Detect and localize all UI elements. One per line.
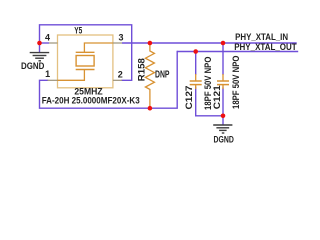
capacitor C121 symbol (217, 74, 229, 89)
junction dot cap ground node (221, 114, 226, 119)
svg-text:DNP: DNP (155, 70, 170, 81)
svg-text:PHY_XTAL_IN: PHY_XTAL_IN (235, 32, 288, 42)
svg-text:DGND: DGND (214, 134, 235, 144)
junction dot R158 top on XTAL_IN rail (148, 41, 153, 46)
svg-text:18PF 50V NPO: 18PF 50V NPO (231, 56, 241, 109)
capacitor C127 symbol (190, 74, 202, 89)
svg-text:PHY_XTAL_OUT: PHY_XTAL_OUT (234, 42, 297, 52)
crystal Y5 symbol: top elbow to pin3 (84, 43, 113, 52)
wire: C127 bottom lead to ground node (196, 88, 223, 116)
wire: DGND stem + top loop + drop to pin2 (40, 25, 132, 81)
svg-text:DGND: DGND (21, 61, 45, 71)
crystal Y5 outline box (58, 35, 113, 88)
wire: C121 bottom lead and ground stem (222, 88, 224, 125)
junction dot C121 top on XTAL_IN rail (221, 41, 226, 46)
resistor R1 (R158) zigzag (145, 43, 154, 108)
junction dot R158 bottom on bottom rail (148, 106, 153, 111)
svg-text:C121: C121 (212, 85, 222, 109)
crystal Y5 symbol: top plate (76, 51, 95, 53)
wire: C121 top lead crossing rail2 (222, 43, 224, 75)
crystal Y5 symbol: bottom elbow to pin1 (58, 70, 85, 81)
pin 1 stub (48, 79, 58, 81)
ground symbol DGND (left) (30, 53, 50, 61)
svg-text:1: 1 (45, 69, 50, 79)
pin 2 stub (113, 79, 122, 81)
svg-text:R158: R158 (137, 58, 147, 81)
wire: pin4 to DGND junction (40, 42, 50, 44)
crystal Y5 symbol: bottom plate (76, 69, 95, 71)
svg-text:Y5: Y5 (74, 26, 82, 36)
pin 4 stub (49, 42, 58, 44)
svg-text:C127: C127 (184, 86, 194, 110)
svg-text:FA-20H 25.0000MF20X-K3: FA-20H 25.0000MF20X-K3 (42, 96, 140, 106)
wire: pin1 down and bottom rail to riser (40, 52, 178, 109)
wire: rail PHY_XTAL_IN from pin3 (122, 42, 297, 44)
junction dot at DGND/pin4 (37, 41, 42, 46)
junction dot C127 top on XTAL_OUT rail (193, 49, 198, 54)
pin 3 stub (113, 42, 122, 44)
svg-text:2: 2 (118, 70, 123, 80)
svg-text:3: 3 (118, 32, 123, 42)
ground symbol DGND (bottom right) (213, 125, 232, 133)
svg-text:4: 4 (45, 33, 50, 43)
crystal Y5 symbol: body rectangle (76, 56, 94, 67)
wire: rail PHY_XTAL_OUT (177, 51, 298, 53)
wire: C127 top lead (195, 52, 197, 76)
